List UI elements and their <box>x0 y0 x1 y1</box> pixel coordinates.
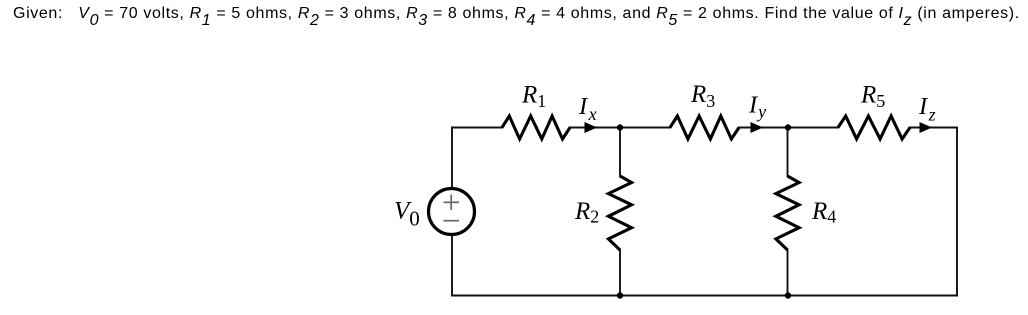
svg-text:R3: R3 <box>690 81 715 111</box>
svg-text:R2: R2 <box>574 198 599 227</box>
svg-text:R1: R1 <box>521 82 546 112</box>
svg-text:Ix: Ix <box>578 93 597 124</box>
svg-text:Iz: Iz <box>918 93 936 125</box>
svg-text:V0: V0 <box>394 198 420 231</box>
svg-text:Iy: Iy <box>748 92 766 122</box>
svg-text:R4: R4 <box>811 198 836 227</box>
svg-text:R5: R5 <box>860 82 885 112</box>
